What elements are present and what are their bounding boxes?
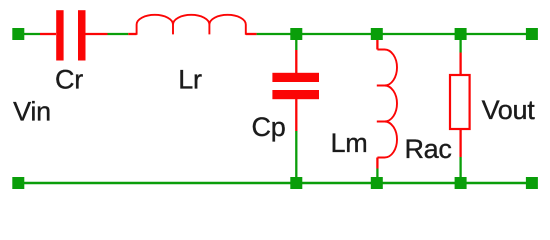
capacitor Cp bottom lead (red) xyxy=(295,99,297,131)
resistor Rac body xyxy=(450,75,470,129)
svg-text:Cp: Cp xyxy=(252,112,286,142)
resistor Rac bottom lead (red) xyxy=(459,129,461,157)
capacitor Cp plate 2 xyxy=(272,90,319,99)
inductor Lr coil xyxy=(137,15,246,35)
svg-text:Cr: Cr xyxy=(55,65,83,95)
wire: bottom rail xyxy=(18,182,532,185)
inductor Lm coil xyxy=(377,50,397,158)
svg-text:Rac: Rac xyxy=(404,134,451,164)
node: top-left terminal xyxy=(12,28,24,40)
capacitor Cr plate 2 xyxy=(78,10,86,60)
capacitor Cp plate 1 xyxy=(272,73,319,82)
node: bottom junction at Cp xyxy=(290,177,302,189)
node: top junction at Rac xyxy=(455,28,467,40)
inductor Lr lead left (red) xyxy=(128,33,136,35)
svg-text:Lm: Lm xyxy=(331,128,368,158)
capacitor Cr leads (red) xyxy=(40,33,108,35)
wire: top rail right green segment xyxy=(257,33,532,35)
inductor Lm top lead (red) xyxy=(376,38,378,50)
wire: top rail left green segment xyxy=(18,33,40,35)
svg-text:Vout: Vout xyxy=(482,95,536,125)
capacitor Cp branch: green stub from top node xyxy=(295,34,297,50)
inductor Lr lead right (red) xyxy=(246,33,257,35)
node: top-right terminal xyxy=(526,28,538,40)
svg-text:Lr: Lr xyxy=(178,65,202,95)
node: bottom junction at Lm xyxy=(371,177,383,189)
capacitor Cr plate 1 xyxy=(56,10,63,60)
svg-text:Vin: Vin xyxy=(13,97,51,127)
node: bottom-left terminal xyxy=(12,177,24,189)
inductor Lm bottom lead (red) xyxy=(376,158,378,169)
node: top junction at Cp xyxy=(290,28,302,40)
wire: Rac to bottom rail green xyxy=(459,157,461,183)
node: top junction at Lm xyxy=(371,28,383,40)
wire: green segment between Cr and Lr xyxy=(108,33,129,35)
capacitor Cp top lead (red) xyxy=(295,50,297,73)
wire: Cp to bottom rail green xyxy=(295,131,297,183)
resistor Rac: green stub from top node xyxy=(459,34,461,53)
node: bottom junction at Rac xyxy=(455,177,467,189)
resistor Rac top lead (red) xyxy=(459,53,461,76)
node: bottom-right terminal xyxy=(526,177,538,189)
wire: Lm to bottom rail green xyxy=(376,169,378,184)
